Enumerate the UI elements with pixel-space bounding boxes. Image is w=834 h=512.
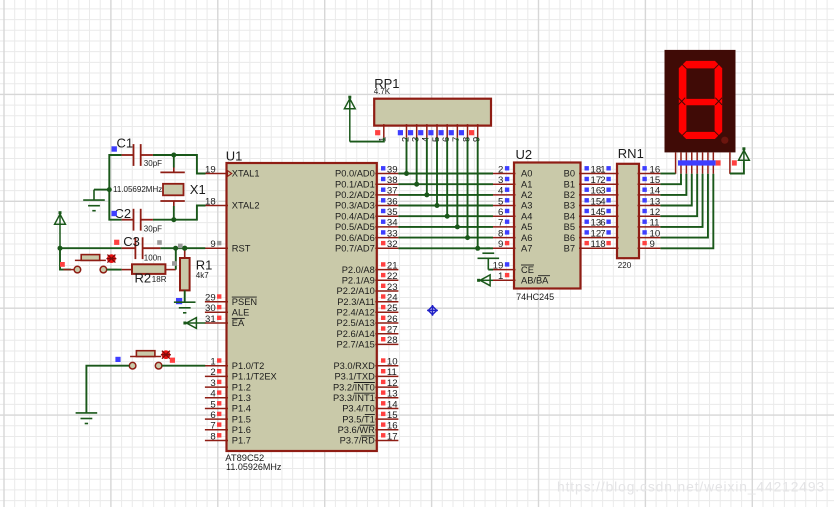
svg-text:B5: B5 bbox=[564, 222, 575, 232]
U1 pin 31 (EA) bbox=[205, 314, 245, 328]
svg-text:4: 4 bbox=[498, 186, 504, 197]
RP1 pin 2 bbox=[398, 124, 411, 142]
wire P0.1/AD1 net from U1 to U2 bbox=[398, 183, 493, 185]
svg-text:P1.7: P1.7 bbox=[232, 436, 251, 446]
U2 pin 17 (B1) bbox=[564, 175, 602, 189]
svg-text:P2.1/A9: P2.1/A9 bbox=[342, 276, 375, 286]
svg-text:2: 2 bbox=[210, 367, 215, 378]
resistor pack RP1 body (4.7K) bbox=[374, 99, 491, 126]
wire RN1 pin 12 to display pin 5 bbox=[660, 174, 697, 216]
svg-text:14: 14 bbox=[387, 399, 398, 410]
op-amp U2 body (74HC245 transceiver) bbox=[514, 163, 581, 289]
display segment pin 6 bbox=[702, 152, 704, 173]
svg-text:29: 29 bbox=[205, 293, 216, 304]
svg-text:18: 18 bbox=[205, 196, 216, 207]
svg-text:26: 26 bbox=[387, 314, 398, 325]
svg-text:30: 30 bbox=[205, 303, 216, 314]
U1 pin 25 (P2.4/A12) bbox=[337, 303, 399, 317]
U1 pin 16 (P3.6/WR) bbox=[338, 421, 399, 435]
svg-text:31: 31 bbox=[205, 314, 216, 325]
svg-text:9: 9 bbox=[498, 239, 503, 250]
wire P0.6/AD6 net from U1 to U2 bbox=[398, 237, 493, 239]
svg-text:P1.2: P1.2 bbox=[232, 382, 251, 392]
display common pin bbox=[729, 152, 731, 173]
svg-text:P1.1/T2EX: P1.1/T2EX bbox=[232, 372, 277, 382]
wire RP1 pin 2 down to P0.0 net bbox=[406, 138, 408, 174]
svg-text:A7: A7 bbox=[521, 244, 532, 254]
wire RST row from C3 to RST pin bbox=[160, 247, 205, 249]
node junction C1/crystal top bbox=[171, 153, 176, 158]
display segment pin 5 bbox=[696, 152, 698, 173]
svg-text:P1.6: P1.6 bbox=[232, 425, 251, 435]
svg-text:15: 15 bbox=[387, 410, 398, 421]
svg-text:P3.6/WR: P3.6/WR bbox=[338, 425, 375, 435]
U1 pin 14 (P3.4/T0) bbox=[342, 399, 398, 413]
wire rail to ground bbox=[94, 189, 109, 191]
U1 pin 27 (P2.6/A14) bbox=[337, 325, 399, 339]
U1 pin 18 (XTAL2) bbox=[205, 196, 260, 210]
svg-text:AB/BA: AB/BA bbox=[521, 276, 549, 286]
wire RN1 pin 14 to display pin 3 bbox=[660, 174, 686, 195]
wire R2 up to RST row bbox=[175, 248, 177, 269]
svg-text:https://blog.csdn.net/weixin_4: https://blog.csdn.net/weixin_44212493 bbox=[557, 480, 825, 495]
svg-text:22: 22 bbox=[387, 271, 398, 282]
U2 pin 8 (A6) bbox=[493, 228, 532, 242]
U1 pin 8 (P1.7) bbox=[205, 431, 251, 445]
RN1 pin 12 bbox=[638, 207, 661, 218]
button 2 terminal state square (blue) bbox=[115, 357, 120, 362]
svg-text:XTAL2: XTAL2 bbox=[232, 201, 260, 211]
wire RST row from VCC rail to C3 bbox=[60, 247, 122, 249]
display segment pin 3 bbox=[685, 152, 687, 173]
svg-text:CE: CE bbox=[521, 265, 534, 275]
RN1 pin 8 bbox=[600, 239, 618, 250]
svg-text:39: 39 bbox=[387, 164, 398, 175]
node junction RP1 pin 9 / P0.7 bbox=[475, 246, 480, 251]
svg-text:P3.4/T0: P3.4/T0 bbox=[342, 404, 375, 414]
svg-text:P3.3/INT1: P3.3/INT1 bbox=[333, 393, 375, 403]
svg-text:12: 12 bbox=[387, 378, 398, 389]
svg-text:P3.0/RXD: P3.0/RXD bbox=[333, 361, 375, 371]
RN1 pin 3 bbox=[600, 186, 618, 197]
wire RN1 pin 13 to display pin 4 bbox=[660, 174, 691, 206]
svg-text:24: 24 bbox=[387, 293, 398, 304]
node junction RP1 pin 5 / P0.3 bbox=[435, 203, 440, 208]
svg-text:19: 19 bbox=[493, 260, 504, 271]
RN1 pin 6 bbox=[600, 218, 618, 229]
7-segment digit 8 (all segments lit) bbox=[679, 61, 722, 139]
svg-text:35: 35 bbox=[387, 207, 398, 218]
RP1 pin 9 bbox=[469, 124, 482, 142]
U1 pin 19 (XTAL1) bbox=[205, 164, 260, 178]
RN1 pin 7 bbox=[600, 228, 618, 239]
svg-text:11.05692MHz: 11.05692MHz bbox=[113, 185, 162, 194]
svg-text:RN1: RN1 bbox=[618, 146, 644, 161]
svg-text:30pF: 30pF bbox=[144, 225, 162, 234]
svg-text:P1.3: P1.3 bbox=[232, 393, 251, 403]
ground below button 2 bbox=[76, 413, 98, 424]
svg-text:7: 7 bbox=[210, 421, 215, 432]
wire C2 row to crystal bottom and XTAL2 bbox=[153, 206, 206, 220]
RP1 pin 6 bbox=[438, 124, 451, 142]
power terminal at display common bbox=[739, 147, 750, 161]
U1 pin 34 (P0.5/AD5) bbox=[335, 218, 398, 232]
svg-text:P1.5: P1.5 bbox=[232, 414, 251, 424]
RN1 pin 2 bbox=[600, 175, 618, 186]
U2 pin 14 (B4) bbox=[564, 207, 602, 221]
U1 pin 10 (P3.0/RXD) bbox=[333, 357, 398, 371]
node junction RST/R2 branch bbox=[173, 246, 178, 251]
svg-text:P1.4: P1.4 bbox=[232, 404, 251, 414]
svg-text:33: 33 bbox=[387, 228, 398, 239]
svg-text:P2.4/A12: P2.4/A12 bbox=[337, 308, 375, 318]
svg-text:15: 15 bbox=[650, 175, 661, 186]
U2 pin 13 (B5) bbox=[564, 218, 602, 232]
RN1 pin 11 bbox=[638, 218, 661, 229]
capacitor C3 (100n) bbox=[122, 237, 161, 259]
U1 pin 33 (P0.6/AD6) bbox=[335, 228, 398, 242]
svg-text:B3: B3 bbox=[564, 201, 575, 211]
svg-text:5: 5 bbox=[498, 196, 503, 207]
svg-text:P3.1/TXD: P3.1/TXD bbox=[334, 372, 375, 382]
wire RP1 pin 5 down to P0.3 net bbox=[436, 138, 438, 206]
wire display common to power bbox=[730, 161, 744, 173]
node junction RP1 pin 2 / P0.0 bbox=[404, 171, 409, 176]
node junction RST/R1 branch bbox=[182, 246, 187, 251]
RN1 pin 5 bbox=[600, 207, 618, 218]
resistor R1 (4k7) bbox=[180, 248, 190, 290]
resistor network RN1 body (220) bbox=[617, 164, 639, 258]
svg-text:C1: C1 bbox=[117, 136, 134, 151]
U1 pin 9 (RST) bbox=[205, 239, 251, 253]
wire C1 row to crystal top and XTAL1 bbox=[153, 155, 206, 174]
svg-text:P3.5/T1: P3.5/T1 bbox=[342, 414, 375, 424]
svg-text:3: 3 bbox=[210, 378, 215, 389]
svg-text:B6: B6 bbox=[564, 233, 575, 243]
svg-text:A0: A0 bbox=[521, 169, 532, 179]
svg-text:P0.5/AD5: P0.5/AD5 bbox=[335, 222, 375, 232]
U2 pin 19 (CE) bbox=[493, 260, 534, 274]
svg-text:6: 6 bbox=[210, 410, 215, 421]
U1 pin 11 (P3.1/TXD) bbox=[334, 367, 398, 381]
U1 pin 21 (P2.0/A8) bbox=[342, 260, 399, 274]
U1 pin 32 (P0.7/AD7) bbox=[335, 239, 398, 253]
svg-text:13: 13 bbox=[387, 389, 398, 400]
RN1 pin 14 bbox=[638, 186, 661, 197]
wire P0.5/AD5 net from U1 to U2 bbox=[398, 226, 493, 228]
wire button 1 to resistor R2 bbox=[107, 269, 122, 271]
wire button 2 to P1.0 pin bbox=[162, 365, 205, 367]
wire R1 to ground bbox=[184, 290, 186, 302]
wire RP1 pin 9 down to P0.7 net bbox=[477, 138, 479, 249]
svg-text:P2.6/A14: P2.6/A14 bbox=[337, 329, 375, 339]
RN1 pin 4 bbox=[600, 196, 618, 207]
ground at U2 CE (rotated) bbox=[478, 248, 500, 269]
7-segment segment gap lines bbox=[678, 63, 722, 137]
svg-text:17: 17 bbox=[387, 431, 398, 442]
wire RP1 pin 7 down to P0.5 net bbox=[456, 138, 458, 227]
wire RP1 pin 4 down to P0.2 net bbox=[426, 138, 428, 195]
svg-text:74HC245: 74HC245 bbox=[516, 292, 554, 302]
wire RN1 pin 10 to display pin 7 bbox=[660, 174, 708, 238]
sheet origin marker bbox=[427, 305, 438, 316]
svg-text:38: 38 bbox=[387, 175, 398, 186]
RP1 pin 1 bbox=[375, 124, 388, 142]
U2 pin 6 (A4) bbox=[493, 207, 532, 221]
U1 XTAL1 clock mark bbox=[228, 171, 232, 177]
svg-text:16: 16 bbox=[650, 164, 661, 175]
svg-text:1: 1 bbox=[498, 271, 503, 282]
ground below R1 bbox=[174, 302, 196, 313]
svg-text:25: 25 bbox=[387, 303, 398, 314]
svg-text:34: 34 bbox=[387, 218, 398, 229]
floating state square between junctions bbox=[178, 244, 183, 249]
wire RN1 pin 16 to display pin a bbox=[660, 173, 675, 175]
power terminal VCC for RP1 pin 1 bbox=[344, 96, 355, 142]
wire crystal top lead bbox=[173, 155, 175, 168]
RP1 pin 8 bbox=[459, 124, 472, 142]
svg-text:RST: RST bbox=[232, 244, 251, 254]
svg-text:12: 12 bbox=[650, 207, 661, 218]
push button 2 (P1.0) bbox=[119, 350, 173, 369]
svg-text:18R: 18R bbox=[152, 275, 167, 284]
ground near crystal bbox=[83, 190, 105, 211]
wire crystal bottom lead bbox=[173, 206, 175, 220]
svg-text:27: 27 bbox=[387, 325, 398, 336]
svg-text:36: 36 bbox=[387, 196, 398, 207]
svg-text:B7: B7 bbox=[564, 244, 575, 254]
RN1 pin 1 bbox=[600, 164, 618, 175]
svg-text:220: 220 bbox=[618, 261, 632, 270]
button 1 state square (red) bbox=[60, 262, 65, 267]
U1 pin 7 (P1.6) bbox=[205, 421, 251, 435]
svg-text:XTAL1: XTAL1 bbox=[232, 169, 260, 179]
svg-text:7: 7 bbox=[498, 218, 503, 229]
svg-text:14: 14 bbox=[650, 186, 661, 197]
node junction RST/R1 branch (redraw over lead) bbox=[182, 246, 187, 251]
wire RP1 pin 1 to VCC bbox=[350, 138, 384, 142]
crystal X1 bbox=[160, 168, 184, 207]
svg-text:8: 8 bbox=[210, 431, 215, 442]
RN1 pin 9 bbox=[638, 239, 661, 250]
node junction RP1 pin 8 / P0.6 bbox=[465, 235, 470, 240]
power terminal at EA pin (left arrow) bbox=[183, 318, 205, 329]
svg-text:PSEN: PSEN bbox=[232, 297, 257, 307]
svg-text:C3: C3 bbox=[123, 234, 140, 249]
svg-text:100n: 100n bbox=[144, 254, 162, 263]
C3 terminal state square (red) bbox=[114, 240, 119, 245]
U1 pin 24 (P2.3/A11) bbox=[337, 293, 398, 307]
svg-text:P2.5/A13: P2.5/A13 bbox=[337, 318, 375, 328]
U1 pin 28 (P2.7/A15) bbox=[337, 335, 399, 349]
svg-text:A5: A5 bbox=[521, 222, 532, 232]
node junction RP1 pin 7 / P0.5 bbox=[455, 224, 460, 229]
wire RN1 pin 9 to display pin 8 bbox=[660, 174, 713, 249]
wire RN1 pin 11 to display pin 6 bbox=[660, 174, 702, 227]
svg-text:30pF: 30pF bbox=[144, 159, 162, 168]
node junction RST/VCC rail bbox=[58, 246, 63, 251]
U2 pin 3 (A1) bbox=[493, 175, 532, 189]
svg-text:P0.0/AD0: P0.0/AD0 bbox=[335, 169, 375, 179]
power terminal VCC above reset button bbox=[55, 211, 66, 248]
svg-text:10: 10 bbox=[387, 357, 398, 368]
RN1 pin 15 bbox=[638, 175, 661, 186]
wire button 2 to ground rail bbox=[86, 366, 129, 413]
svg-text:8: 8 bbox=[498, 228, 503, 239]
svg-text:4k7: 4k7 bbox=[196, 271, 209, 280]
U1 pin 13 (P3.3/INT1) bbox=[333, 389, 398, 403]
U1 pin 4 (P1.3) bbox=[205, 389, 251, 403]
svg-text:P2.0/A8: P2.0/A8 bbox=[342, 265, 375, 275]
U2 pin 1 (AB/BA) bbox=[493, 271, 550, 285]
wire P0.4/AD4 net from U1 to U2 bbox=[398, 215, 493, 217]
RP1 pin 7 bbox=[449, 124, 462, 142]
U2 pin 5 (A3) bbox=[493, 196, 532, 210]
display segment pin 7 bbox=[707, 152, 709, 173]
U1 pin 39 (P0.0/AD0) bbox=[335, 164, 398, 178]
U1 pin 3 (P1.2) bbox=[205, 378, 251, 392]
svg-text:P1.0/T2: P1.0/T2 bbox=[232, 361, 265, 371]
U1 pin 23 (P2.2/A10) bbox=[337, 282, 399, 296]
svg-text:P0.2/AD2: P0.2/AD2 bbox=[335, 190, 375, 200]
svg-text:9: 9 bbox=[210, 239, 215, 250]
node junction C2/crystal bottom bbox=[171, 217, 176, 222]
svg-text:P0.6/AD6: P0.6/AD6 bbox=[335, 233, 375, 243]
U1 pin 17 (P3.7/RD) bbox=[340, 431, 399, 445]
svg-text:1: 1 bbox=[210, 357, 215, 368]
svg-text:5: 5 bbox=[210, 399, 215, 410]
U2 pin 11 (B7) bbox=[564, 239, 602, 253]
svg-text:A3: A3 bbox=[521, 201, 532, 211]
svg-text:3: 3 bbox=[498, 175, 503, 186]
svg-text:10: 10 bbox=[650, 228, 661, 239]
svg-text:B4: B4 bbox=[564, 211, 575, 221]
U2 pin 7 (A5) bbox=[493, 218, 532, 232]
svg-text:P2.7/A15: P2.7/A15 bbox=[337, 340, 375, 350]
floating state square near C3 terminal bbox=[157, 240, 162, 245]
U2 pin 4 (A2) bbox=[493, 186, 532, 200]
svg-text:U1: U1 bbox=[226, 149, 243, 164]
svg-text:P0.3/AD3: P0.3/AD3 bbox=[335, 201, 375, 211]
svg-text:C2: C2 bbox=[115, 206, 132, 221]
display dp pin state square (red) bbox=[716, 160, 721, 165]
wire U2 CE to ground bbox=[488, 269, 493, 271]
svg-text:9: 9 bbox=[470, 137, 481, 142]
RP1 pin 5 bbox=[428, 124, 441, 142]
U1 pin 2 (P1.1/T2EX) bbox=[205, 367, 277, 381]
svg-text:13: 13 bbox=[650, 196, 661, 207]
U1 pin 22 (P2.1/A9) bbox=[342, 271, 399, 285]
svg-text:B1: B1 bbox=[564, 179, 575, 189]
svg-text:X1: X1 bbox=[190, 182, 206, 197]
C1 terminal state square (blue) bbox=[112, 146, 117, 151]
svg-text:P2.3/A11: P2.3/A11 bbox=[337, 297, 375, 307]
wire RN1 pin 15 to display pin 2 bbox=[660, 174, 681, 184]
node junction rail to ground bbox=[107, 187, 112, 192]
wire P0.2/AD2 net from U1 to U2 bbox=[398, 194, 493, 196]
floating state square on R2 branch bbox=[172, 261, 177, 266]
7-segment decimal point (dim) bbox=[721, 137, 728, 144]
svg-text:U2: U2 bbox=[516, 147, 533, 162]
svg-text:37: 37 bbox=[387, 186, 398, 197]
svg-text:ALE: ALE bbox=[232, 308, 250, 318]
U1 pin 38 (P0.1/AD1) bbox=[335, 175, 398, 189]
svg-text:11: 11 bbox=[650, 218, 660, 229]
svg-text:8: 8 bbox=[600, 239, 605, 250]
node junction RP1 pin 6 / P0.4 bbox=[445, 214, 450, 219]
U1 pin 5 (P1.4) bbox=[205, 399, 251, 413]
display pin state squares (blue bar) bbox=[678, 160, 716, 165]
svg-text:P0.1/AD1: P0.1/AD1 bbox=[335, 179, 375, 189]
U1 pin 1 (P1.0/T2) bbox=[205, 357, 264, 371]
svg-text:EA: EA bbox=[232, 318, 245, 328]
svg-text:B0: B0 bbox=[564, 169, 575, 179]
C2 terminal state square (blue) bbox=[112, 211, 117, 216]
display segment pin 4 bbox=[691, 152, 693, 173]
svg-text:21: 21 bbox=[387, 260, 398, 271]
svg-text:R2: R2 bbox=[135, 271, 152, 286]
display common pin state square (red) bbox=[732, 160, 737, 165]
U2 pin 16 (B2) bbox=[564, 186, 602, 200]
wire RP1 pin 6 down to P0.4 net bbox=[446, 138, 448, 216]
U2 pin 12 (B6) bbox=[564, 228, 602, 242]
display segment pin 1 bbox=[675, 152, 677, 173]
power terminal at U2 AB/BA (left arrow) bbox=[477, 275, 493, 286]
U2 pin 15 (B3) bbox=[564, 196, 602, 210]
U2 pin 18 (B0) bbox=[564, 164, 602, 178]
node junction RP1 pin 3 / P0.1 bbox=[414, 182, 419, 187]
svg-text:1: 1 bbox=[600, 164, 605, 175]
svg-text:11: 11 bbox=[591, 239, 601, 250]
wire P0.3/AD3 net from U1 to U2 bbox=[398, 205, 493, 207]
U1 pin 36 (P0.3/AD3) bbox=[335, 196, 398, 210]
svg-text:P2.2/A10: P2.2/A10 bbox=[337, 286, 375, 296]
svg-text:3: 3 bbox=[600, 186, 605, 197]
U2 pin 2 (A0) bbox=[493, 164, 532, 178]
wire left rail joining C1 and C2 bbox=[109, 155, 121, 220]
svg-text:11: 11 bbox=[387, 367, 397, 378]
R1 ground terminal state square (blue) bbox=[176, 298, 182, 304]
7-segment display body bbox=[665, 50, 736, 152]
svg-text:9: 9 bbox=[650, 239, 655, 250]
svg-text:5: 5 bbox=[600, 207, 605, 218]
resistor R2 (18R) bbox=[122, 264, 176, 274]
RN1 pin 10 bbox=[638, 228, 661, 239]
svg-text:7: 7 bbox=[600, 228, 605, 239]
U1 pin 35 (P0.4/AD4) bbox=[335, 207, 398, 221]
U1 pin 37 (P0.2/AD2) bbox=[335, 186, 398, 200]
op-amp U1 body (AT89C52 microcontroller) bbox=[227, 163, 377, 451]
push button 1 (reset) bbox=[63, 254, 117, 273]
capacitor C1 bbox=[122, 144, 153, 166]
RP1 pin 3 bbox=[408, 124, 421, 142]
svg-text:6: 6 bbox=[498, 207, 503, 218]
U1 pin 26 (P2.5/A13) bbox=[337, 314, 399, 328]
svg-text:32: 32 bbox=[387, 239, 398, 250]
svg-text:P3.2/INT0: P3.2/INT0 bbox=[333, 382, 375, 392]
svg-text:4: 4 bbox=[600, 196, 606, 207]
svg-text:A1: A1 bbox=[521, 179, 532, 189]
wire VCC rail down to button 1 bbox=[60, 248, 71, 269]
wire RP1 pin 8 down to P0.6 net bbox=[467, 138, 469, 238]
svg-text:23: 23 bbox=[387, 282, 398, 293]
svg-text:A6: A6 bbox=[521, 233, 532, 243]
capacitor C2 bbox=[122, 209, 153, 231]
wire RP1 pin 3 down to P0.1 net bbox=[416, 138, 418, 184]
svg-text:A2: A2 bbox=[521, 190, 532, 200]
U1 pin 6 (P1.5) bbox=[205, 410, 251, 424]
svg-text:16: 16 bbox=[387, 421, 398, 432]
